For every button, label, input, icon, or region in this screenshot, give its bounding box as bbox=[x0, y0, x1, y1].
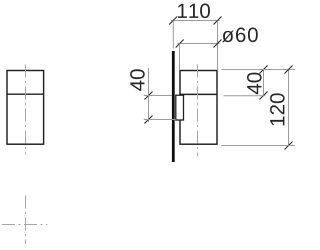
right dimension 40 top tick bbox=[260, 66, 268, 74]
dimension diameter 60 left extension line bbox=[179, 44, 181, 71]
left dimension 40 top tick bbox=[145, 92, 153, 100]
shared right extension line for 110 and diameter 60 bbox=[217, 21, 219, 71]
dimension 110 label bbox=[178, 4, 210, 19]
left dimension 40 bottom tick bbox=[145, 116, 153, 124]
left dimension 40 label (rotated) bbox=[130, 69, 145, 91]
dimension 120 bottom tick bbox=[285, 142, 293, 150]
side view divider line bbox=[180, 93, 217, 95]
dimension 120 top tick bbox=[285, 66, 293, 74]
dimension 120 label (rotated) bbox=[270, 93, 285, 125]
dimension 110 left tick bbox=[169, 17, 177, 25]
wall line (thick) bbox=[172, 51, 175, 162]
right dimension 40 bottom tick bbox=[260, 92, 268, 100]
dimension 110 line bbox=[171, 20, 220, 22]
right dimension 40 label (rotated) bbox=[247, 73, 262, 95]
right middle extension line for 40 bbox=[224, 95, 266, 97]
dimension diameter 60 label bbox=[222, 28, 258, 43]
front view vertical center line bbox=[25, 65, 27, 155]
side view vertical center line bbox=[197, 65, 199, 157]
left dimension 40 line bbox=[148, 68, 150, 122]
left dimension 40 bottom extension line bbox=[144, 119, 176, 121]
right dimension 40 line bbox=[263, 70, 265, 96]
front view body outline bbox=[7, 71, 44, 145]
side view body outline bbox=[180, 71, 217, 145]
plan view center cross vertical line bbox=[25, 196, 27, 245]
dimension 110 left extension line bbox=[172, 21, 174, 49]
dimension diameter 60 right tick bbox=[214, 40, 222, 48]
dimension 120 line bbox=[288, 70, 290, 146]
left dimension 40 top extension line bbox=[144, 95, 172, 97]
front view divider line bbox=[7, 93, 44, 95]
plan view center cross horizontal line bbox=[2, 224, 47, 226]
dimension 120 bottom extension line bbox=[221, 145, 295, 147]
right top extension line shared by 40 and 120 bbox=[221, 69, 295, 71]
dimension diameter 60 left tick bbox=[176, 40, 184, 48]
side view wall flange bbox=[176, 95, 184, 120]
dimension diameter 60 line bbox=[178, 43, 220, 45]
dimension 110 right tick bbox=[214, 17, 222, 25]
